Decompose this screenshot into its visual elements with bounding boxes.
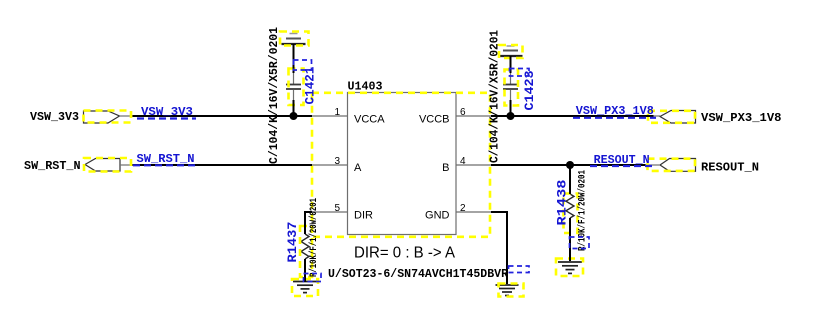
svg-text:VSW_3V3: VSW_3V3 bbox=[30, 110, 79, 124]
svg-text:R1437: R1437 bbox=[285, 222, 300, 263]
svg-text:2: 2 bbox=[460, 203, 466, 214]
svg-text:3: 3 bbox=[334, 156, 340, 167]
svg-text:B: B bbox=[442, 162, 449, 174]
svg-text:GND: GND bbox=[425, 210, 450, 222]
svg-text:A: A bbox=[354, 162, 362, 174]
svg-text:6: 6 bbox=[460, 107, 466, 118]
svg-text:1: 1 bbox=[334, 107, 340, 118]
svg-text:R1438: R1438 bbox=[555, 179, 570, 225]
svg-text:U/SOT23-6/SN74AVCH1T45DBVR: U/SOT23-6/SN74AVCH1T45DBVR bbox=[328, 267, 509, 281]
svg-text:4: 4 bbox=[460, 156, 466, 167]
svg-text:C/104/K/16V/X5R/0201: C/104/K/16V/X5R/0201 bbox=[267, 27, 281, 164]
svg-text:R/10K/F/1/20W/0201: R/10K/F/1/20W/0201 bbox=[308, 198, 320, 277]
svg-text:DIR: DIR bbox=[354, 210, 373, 222]
svg-text:5: 5 bbox=[334, 203, 340, 214]
svg-text:VSW_3V3: VSW_3V3 bbox=[141, 105, 193, 119]
svg-text:VSW_PX3_1V8: VSW_PX3_1V8 bbox=[701, 111, 782, 125]
svg-text:VCCB: VCCB bbox=[419, 114, 450, 126]
svg-text:U1403: U1403 bbox=[348, 80, 383, 94]
svg-text:VSW_PX3_1V8: VSW_PX3_1V8 bbox=[576, 104, 654, 118]
svg-text:R/10K/F/1/20W/0201: R/10K/F/1/20W/0201 bbox=[577, 170, 589, 251]
svg-text:C/104/K/16V/X5R/0201: C/104/K/16V/X5R/0201 bbox=[488, 30, 502, 163]
svg-text:C1421: C1421 bbox=[303, 66, 318, 104]
svg-text:DIR= 0 : B -> A: DIR= 0 : B -> A bbox=[354, 245, 455, 262]
svg-text:VCCA: VCCA bbox=[354, 114, 385, 126]
svg-text:SW_RST_N: SW_RST_N bbox=[137, 152, 195, 166]
svg-text:SW_RST_N: SW_RST_N bbox=[24, 159, 81, 173]
svg-text:RESOUT_N: RESOUT_N bbox=[701, 161, 759, 175]
